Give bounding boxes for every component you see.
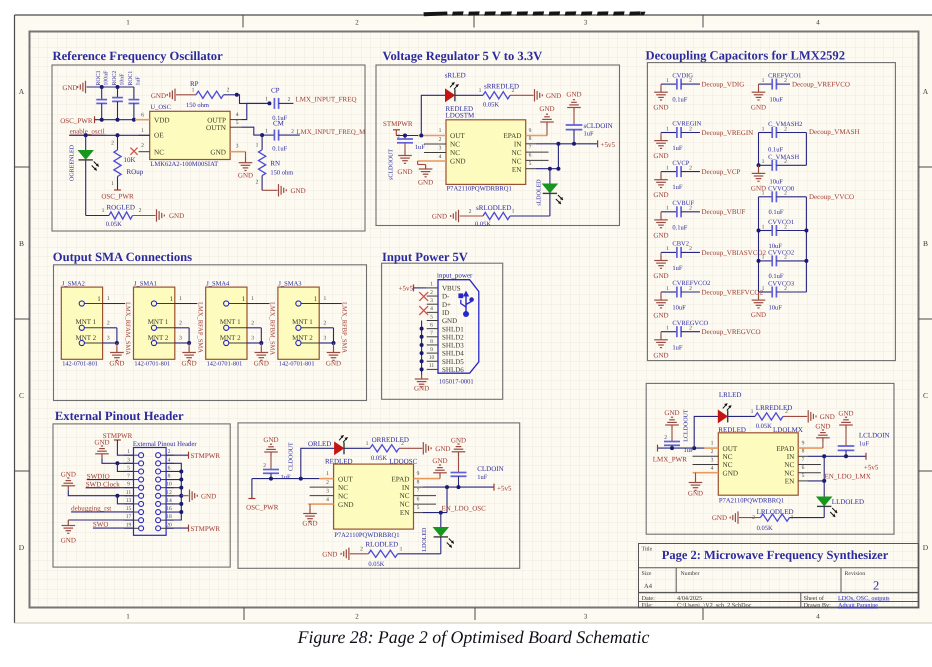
capacitor CVVCO2 0.1uF (759, 250, 807, 281)
svg-text:12: 12 (166, 490, 172, 496)
svg-text:CLDOIN: CLDOIN (477, 465, 503, 473)
ground GND7 under pin4 (418, 161, 434, 187)
ground GND9 above EPAD (539, 105, 554, 136)
svg-text:6: 6 (417, 496, 420, 502)
svg-text:3: 3 (127, 457, 130, 463)
oscillator U_OSC LMK62A2-100M00SIAT (150, 104, 230, 168)
svg-text:4: 4 (168, 457, 171, 463)
svg-text:LMX_RFAP_SMA: LMX_RFAP_SMA (196, 302, 203, 353)
pin 19 header (124, 522, 138, 528)
node junction dots top rail (100, 85, 120, 89)
net label enable_oscil (70, 128, 106, 136)
power port OSC_PWR 3 (246, 479, 279, 512)
svg-text:EN: EN (400, 509, 410, 517)
svg-text:GND: GND (94, 438, 109, 446)
ground GND23 under pin4 OSC (302, 504, 317, 527)
svg-text:10K: 10K (124, 156, 136, 164)
svg-text:5: 5 (127, 465, 130, 471)
node junctions OUT rail OSC (269, 477, 303, 481)
svg-text:GND: GND (442, 317, 457, 325)
wire sRLODLED to ground (460, 215, 484, 217)
resistor RLODLED 0.05K (360, 540, 403, 568)
connector input_power 105017-0001 (437, 271, 479, 385)
svg-text:+5v5: +5v5 (601, 141, 616, 149)
capacitor LCLDOOUT 1uF (664, 409, 694, 454)
ground GND19 under pin4 (688, 473, 703, 498)
svg-text:1uF: 1uF (136, 76, 142, 86)
svg-text:2: 2 (469, 209, 472, 215)
svg-text:Figure 28: Page 2 of Optimised: Figure 28: Page 2 of Optimised Board Sch… (297, 627, 650, 647)
pin 8 header (161, 474, 174, 480)
pin 3 NC (310, 488, 334, 495)
svg-text:2: 2 (179, 320, 182, 326)
svg-text:1: 1 (141, 128, 144, 134)
svg-text:ORLED: ORLED (308, 440, 331, 448)
svg-text:4: 4 (236, 112, 239, 118)
svg-text:GND: GND (838, 410, 853, 418)
svg-text:5: 5 (430, 314, 433, 320)
ground GND15 above CLDOIN (452, 444, 466, 456)
pin 16 header (161, 506, 174, 512)
pin 13 header (124, 498, 138, 504)
ground GND header mid-left (61, 470, 134, 495)
section box Input Power 5V (382, 250, 503, 399)
svg-text:GND: GND (182, 360, 197, 368)
svg-text:File:: File: (642, 602, 654, 609)
svg-text:Decoup_VBUF: Decoup_VBUF (702, 208, 746, 216)
LED ORLED REDLED (301, 435, 353, 478)
svg-text:2: 2 (689, 286, 692, 292)
pin 5 OUTN (230, 120, 241, 127)
svg-text:1: 1 (666, 246, 669, 252)
ground GND2 under pin 3 (238, 152, 253, 180)
pin 2 NC (310, 480, 334, 487)
svg-text:11: 11 (126, 490, 132, 496)
resistor RN 150 ohm (256, 135, 294, 190)
wire VVCO bracket (759, 197, 807, 292)
svg-text:OUT: OUT (723, 445, 738, 453)
svg-text:MNT 2: MNT 2 (76, 334, 97, 342)
svg-text:LLDOLED: LLDOLED (832, 498, 864, 506)
pin 8 input_power (427, 339, 438, 345)
wire OUTP to CP (242, 103, 270, 119)
ground VMASH GND (751, 165, 766, 192)
svg-text:Decoup_VBIASVCO2: Decoup_VBIASVCO2 (702, 249, 767, 257)
pin 2 input_power (427, 290, 438, 296)
pin 2 MNT1 J_SMA4 (247, 320, 261, 328)
svg-text:1: 1 (97, 295, 101, 303)
svg-text:GND: GND (432, 213, 447, 221)
svg-text:4: 4 (816, 613, 820, 621)
svg-text:GND: GND (61, 470, 76, 478)
pin 1 J_SMA2 (103, 296, 126, 304)
pin 6 NC (414, 496, 437, 504)
svg-text:1: 1 (126, 19, 130, 27)
connector External Pinout Header (133, 441, 198, 535)
svg-text:GND: GND (414, 385, 429, 393)
svg-text:13: 13 (126, 498, 132, 504)
svg-text:0.1uF: 0.1uF (672, 224, 687, 231)
wire MNT tie J_SMA4 (260, 328, 262, 343)
svg-text:4: 4 (326, 497, 329, 503)
section box LMX LDO (646, 383, 894, 534)
ground GND6 under sCLDOOUT (398, 151, 412, 163)
pin 2 MNT1 J_SMA1 (175, 320, 189, 328)
pin 14 header (161, 498, 174, 504)
svg-text:LMX_PWR: LMX_PWR (653, 455, 688, 463)
capacitor CM 0.1uF (262, 120, 300, 153)
svg-text:1: 1 (666, 78, 669, 84)
svg-text:P7A2110PQWDRBRQ1: P7A2110PQWDRBRQ1 (719, 497, 784, 504)
pin 8 IN (526, 136, 536, 144)
svg-text:2: 2 (430, 290, 433, 296)
svg-text:GND: GND (546, 92, 561, 100)
pin 6 VDD (135, 113, 150, 120)
svg-text:NC: NC (338, 484, 348, 492)
svg-text:10: 10 (429, 355, 435, 361)
ground GND14 above EPAD (432, 457, 447, 479)
svg-text:Decoup_VVCO: Decoup_VVCO (809, 193, 854, 201)
pin 1 header (124, 449, 138, 455)
connector J_SMA2 142-0701-801 (61, 281, 102, 368)
node junctions enable_oscil (84, 133, 120, 137)
svg-text:10uF: 10uF (672, 305, 686, 312)
svg-text:2: 2 (785, 409, 788, 415)
svg-text:1: 1 (127, 449, 130, 455)
svg-text:100nF: 100nF (104, 70, 110, 86)
zone column separators top (243, 15, 703, 28)
no connect X pin2 (419, 292, 428, 301)
wire MNT tie J_SMA1 (188, 328, 190, 343)
ground CVCP GND (653, 172, 668, 200)
svg-text:External Pinout Header: External Pinout Header (133, 441, 198, 448)
svg-text:GND: GND (688, 490, 703, 498)
capacitor CVCP 1uF (661, 160, 700, 191)
pin 6 NC (526, 153, 549, 161)
capacitor ROC1 1uF (128, 71, 142, 120)
node junction EN OSC (439, 511, 443, 515)
svg-text:GND: GND (109, 360, 124, 368)
power port +5v5 LMX (864, 453, 879, 472)
svg-text:CVREGIN: CVREGIN (672, 121, 701, 128)
resistor LRREDLED 0.05K (728, 404, 792, 430)
net label SWD Clock (86, 481, 134, 489)
svg-text:Decoup_VREGIN: Decoup_VREGIN (702, 129, 754, 137)
svg-text:IN: IN (787, 453, 795, 461)
node junction RP (235, 93, 239, 97)
svg-text:2: 2 (873, 579, 879, 593)
svg-text:1uF: 1uF (281, 474, 292, 481)
svg-text:18: 18 (166, 514, 172, 520)
pin 2 NC (130, 143, 149, 155)
svg-text:LMX_INPUT_FREQ: LMX_INPUT_FREQ (296, 96, 357, 104)
svg-text:1: 1 (666, 206, 669, 212)
svg-text:1: 1 (256, 143, 259, 149)
svg-text:GND: GND (566, 91, 581, 99)
svg-text:OUT: OUT (450, 132, 465, 140)
pin 3 MNT2 J_SMA1 (175, 336, 189, 344)
svg-text:NC: NC (723, 453, 733, 461)
ground CVREGIN GND (653, 133, 668, 161)
resistor sRREDLED 0.05K (455, 83, 519, 109)
svg-text:GND: GND (418, 179, 433, 187)
svg-text:LMX_RFBM_SMA: LMX_RFBM_SMA (269, 302, 276, 355)
svg-text:input_power: input_power (437, 271, 473, 279)
svg-text:EN_LDO_LMX: EN_LDO_LMX (825, 473, 871, 481)
svg-text:2: 2 (355, 613, 359, 621)
svg-text:0.05K: 0.05K (756, 423, 772, 430)
node junctions header right chain (179, 469, 183, 514)
connector J_SMA4 142-0701-801 (206, 281, 247, 368)
pin 6 input_power (427, 322, 438, 328)
svg-text:0.1uF: 0.1uF (672, 97, 687, 104)
svg-text:9: 9 (417, 471, 420, 477)
svg-text:105017-0001: 105017-0001 (439, 379, 474, 386)
svg-text:1: 1 (711, 440, 714, 446)
pin 9 EPAD (414, 471, 441, 479)
resistor ROup 10K (111, 135, 144, 190)
pin 9 header (124, 482, 138, 488)
power port STMPWR (383, 120, 413, 136)
capacitor CBV2 1uF (661, 241, 700, 272)
svg-text:sCLDOOUT: sCLDOOUT (388, 149, 394, 180)
capacitor ROC3 100nF (96, 70, 110, 120)
pin 9 EPAD (798, 440, 823, 448)
svg-text:2: 2 (689, 126, 692, 132)
svg-text:IN: IN (514, 141, 522, 149)
resistor RP 150 ohm (176, 80, 230, 109)
capacitor CVBUF 0.1uF (661, 200, 700, 231)
svg-text:1: 1 (324, 296, 327, 302)
wire EN rail OSC (423, 487, 447, 512)
svg-text:142-0701-801: 142-0701-801 (279, 360, 315, 367)
svg-text:Sheet of: Sheet of (804, 595, 825, 602)
regulator U3 P7A2110PQWDRBRQ1 (334, 464, 414, 539)
node junction J_SMA2 (115, 341, 119, 345)
svg-text:1: 1 (192, 88, 195, 94)
pin 9 EPAD (526, 128, 547, 136)
svg-text:1uF: 1uF (859, 440, 870, 447)
svg-text:7: 7 (802, 457, 805, 463)
svg-text:1: 1 (265, 128, 268, 134)
node junction header pin11 (115, 494, 119, 498)
svg-text:Reference Frequency Oscillator: Reference Frequency Oscillator (53, 49, 224, 63)
svg-text:10uF: 10uF (770, 97, 784, 104)
svg-text:2: 2 (111, 141, 114, 147)
svg-text:2: 2 (107, 320, 110, 326)
pin 2 MNT1 J_SMA3 (319, 320, 333, 328)
svg-text:0.1uF: 0.1uF (768, 146, 783, 153)
svg-text:GND: GND (451, 436, 466, 444)
svg-text:0.1uF: 0.1uF (272, 145, 287, 152)
svg-text:0.05K: 0.05K (483, 101, 499, 108)
pin 3 header (124, 457, 138, 463)
svg-text:ROup: ROup (127, 168, 144, 176)
svg-text:SHLD2: SHLD2 (442, 333, 464, 341)
svg-text:GND: GND (151, 92, 166, 100)
svg-text:3: 3 (107, 336, 110, 342)
LED LLDOLED green (817, 481, 864, 518)
svg-text:1: 1 (111, 181, 114, 187)
node junctions EN (548, 167, 561, 171)
svg-text:LMX_INPUT_FREQ_M: LMX_INPUT_FREQ_M (297, 129, 366, 136)
wire IN rail OSC (423, 486, 494, 488)
pin 7 NC (526, 144, 549, 152)
svg-text:Decoup_VREFVCO: Decoup_VREFVCO (792, 81, 850, 89)
svg-text:CLDOOUT: CLDOOUT (288, 442, 294, 471)
capacitor sCLDOIN 1uF (566, 112, 613, 144)
svg-text:GND: GND (653, 152, 668, 160)
svg-text:1uF: 1uF (672, 184, 683, 191)
pin 9 input_power (427, 347, 438, 353)
ground J_SMA2 GND (109, 343, 124, 368)
cropped text fragments top (424, 11, 646, 16)
svg-text:9: 9 (529, 128, 532, 134)
ground GND17 above LCLDOOUT (665, 417, 679, 429)
net label LMX_INPUT_FREQ_M (291, 129, 365, 136)
svg-text:10: 10 (166, 482, 172, 488)
ground input_power GND (414, 375, 429, 393)
pin 2 NC (693, 449, 719, 456)
svg-text:2: 2 (784, 286, 787, 292)
svg-text:IN: IN (402, 484, 410, 492)
pin 3 MNT2 J_SMA4 (247, 336, 261, 344)
svg-text:2: 2 (512, 88, 515, 94)
svg-text:7: 7 (127, 474, 130, 480)
ground GND header upper-left (94, 438, 133, 463)
svg-text:ROC1: ROC1 (128, 71, 134, 86)
node junctions shield pins (420, 327, 424, 372)
svg-text:B: B (923, 239, 928, 248)
svg-text:1: 1 (762, 191, 765, 197)
svg-text:External Pinout Header: External Pinout Header (55, 409, 184, 423)
svg-text:2: 2 (168, 449, 171, 455)
node junction dots OSC_PWR rail (100, 118, 136, 122)
svg-text:Output SMA Connections: Output SMA Connections (53, 250, 192, 264)
pin 1 OUT (704, 440, 718, 448)
ground CVDIG GND (653, 84, 668, 112)
svg-text:CVCP: CVCP (672, 160, 689, 167)
node junction header pin3 (115, 461, 119, 465)
pin 5 EN (414, 505, 424, 513)
svg-text:1: 1 (326, 471, 329, 477)
wire OUT rail OSC (252, 478, 319, 480)
capacitor CVREGVCO 1uF (661, 320, 708, 351)
svg-text:150 ohm: 150 ohm (186, 102, 209, 109)
svg-text:GND: GND (653, 272, 668, 280)
svg-text:EN: EN (512, 166, 522, 174)
svg-text:OUT: OUT (338, 475, 353, 483)
section box Reference Frequency Oscillator (52, 49, 365, 231)
capacitor CLDOOUT 1uF (263, 442, 294, 481)
net label LMX_INPUT_FREQ (288, 96, 357, 104)
svg-text:2: 2 (784, 191, 787, 197)
svg-text:Advait Paranjpe: Advait Paranjpe (838, 602, 878, 609)
wire header pin17 to ground (68, 519, 133, 521)
svg-text:1: 1 (666, 126, 669, 132)
svg-text:9: 9 (430, 347, 433, 353)
svg-text:LRLED: LRLED (719, 391, 742, 399)
title block (639, 544, 919, 608)
svg-text:142-0701-801: 142-0701-801 (62, 360, 98, 367)
svg-text:1uF: 1uF (672, 265, 683, 272)
svg-text:+5v5: +5v5 (497, 484, 512, 492)
pin 3 MNT2 J_SMA2 (103, 336, 117, 344)
svg-text:MNT 1: MNT 1 (148, 318, 169, 326)
ground GND21 above LCLDOIN (839, 417, 853, 429)
svg-text:2: 2 (689, 165, 692, 171)
svg-text:5: 5 (236, 120, 239, 126)
svg-text:D: D (19, 543, 25, 552)
svg-text:LDOs, OSC, outputs: LDOs, OSC, outputs (838, 595, 890, 602)
svg-text:14: 14 (166, 498, 172, 504)
svg-text:1: 1 (314, 295, 318, 303)
svg-text:LCLDOOUT: LCLDOOUT (683, 409, 689, 442)
svg-text:1: 1 (439, 128, 442, 134)
svg-text:sCLDOIN: sCLDOIN (584, 122, 613, 130)
capacitor CVVCO3 10uF (759, 281, 807, 312)
svg-text:5: 5 (802, 473, 805, 479)
pin 11 input_power (427, 363, 438, 369)
svg-text:NC: NC (400, 492, 410, 500)
svg-text:GND: GND (397, 168, 412, 176)
pin 4 OUTP (230, 112, 241, 120)
svg-text:MNT 2: MNT 2 (148, 334, 169, 342)
section box Decoupling Capacitors for LMX2592 (646, 49, 896, 361)
svg-text:8: 8 (417, 479, 420, 485)
wire RN to ground (262, 189, 277, 191)
power port OSC_PWR (60, 116, 94, 125)
wire IN rail LMX (808, 455, 866, 457)
wire shield ground chain (421, 321, 423, 375)
svg-text:C: C (19, 391, 24, 400)
wire header pin13 tie (117, 496, 133, 504)
wire sRREDLED to ground (510, 94, 534, 96)
svg-text:7: 7 (529, 144, 532, 150)
svg-text:GND: GND (664, 409, 679, 417)
svg-text:1: 1 (762, 126, 765, 132)
svg-text:1: 1 (762, 224, 765, 230)
svg-text:GND: GND (450, 158, 466, 166)
svg-text:CBV2: CBV2 (672, 241, 689, 248)
svg-text:7: 7 (417, 488, 420, 494)
ground GND8 (535, 89, 543, 101)
pin 10 input_power (427, 355, 438, 361)
svg-text:LDOSTM: LDOSTM (446, 111, 476, 119)
svg-text:GND: GND (326, 360, 341, 368)
svg-text:LMX_RFBP_SMA: LMX_RFBP_SMA (341, 302, 348, 353)
svg-text:GND: GND (539, 105, 554, 113)
svg-text:0.05K: 0.05K (368, 561, 384, 568)
svg-text:Voltage Regulator 5 V to 3.3V: Voltage Regulator 5 V to 3.3V (383, 49, 543, 63)
svg-text:GND: GND (653, 312, 668, 320)
pin 4 input_power (427, 306, 438, 312)
svg-text:GND: GND (338, 501, 354, 509)
svg-text:STMPWR: STMPWR (383, 120, 413, 128)
svg-text:LMX_RFAM_SMA: LMX_RFAM_SMA (124, 302, 131, 355)
ground J_SMA3 GND (326, 343, 341, 368)
svg-text:3: 3 (584, 19, 588, 27)
section box Voltage Regulator 5 V to 3.3V (376, 49, 620, 226)
node junctions VVCO (757, 229, 809, 263)
capacitor CLDOIN 1uF (451, 456, 504, 487)
svg-text:OSC_PWR: OSC_PWR (246, 504, 279, 512)
svg-text:142-0701-801: 142-0701-801 (134, 360, 170, 367)
svg-text:Decoup_VDIG: Decoup_VDIG (702, 81, 745, 89)
svg-text:Decoupling Capacitors for LMX2: Decoupling Capacitors for LMX2592 (646, 49, 846, 63)
svg-text:3: 3 (584, 613, 588, 621)
ground CVREGVCO GND (653, 332, 668, 360)
